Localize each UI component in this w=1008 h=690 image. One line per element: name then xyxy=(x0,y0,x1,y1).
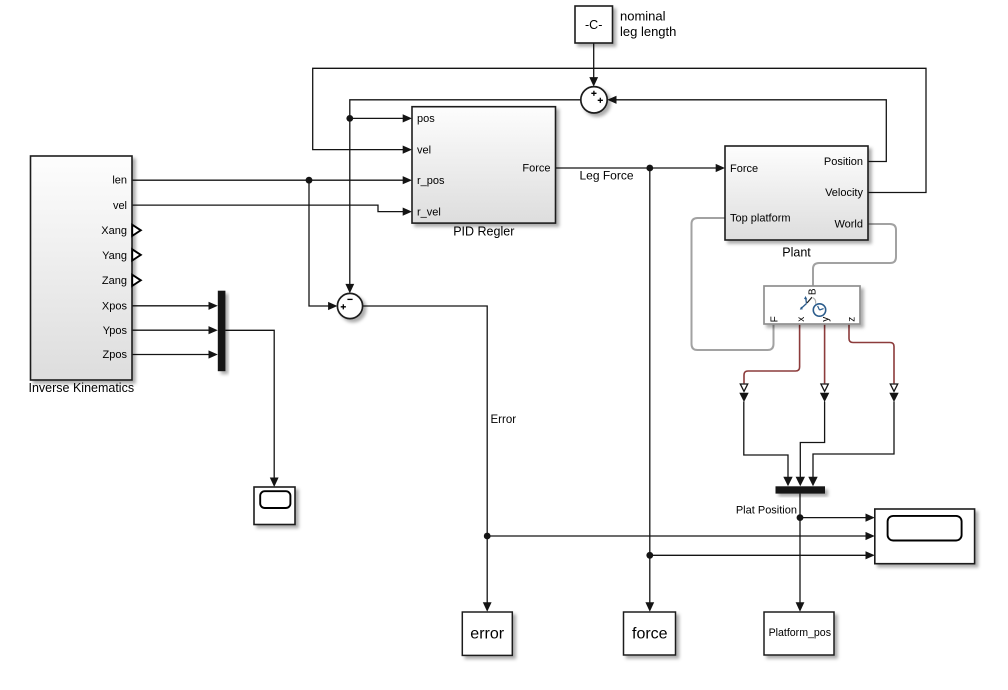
svg-text:x: x xyxy=(796,317,807,322)
svg-text:error: error xyxy=(470,626,504,643)
svg-text:z: z xyxy=(846,317,857,322)
svg-text:-C-: -C- xyxy=(585,18,602,32)
svg-text:Xang: Xang xyxy=(101,225,127,237)
svg-text:force: force xyxy=(632,626,668,643)
svg-text:F: F xyxy=(770,316,781,322)
svg-text:Velocity: Velocity xyxy=(825,187,863,199)
svg-text:Inverse Kinematics: Inverse Kinematics xyxy=(28,381,134,395)
svg-text:Zang: Zang xyxy=(102,275,127,287)
svg-text:Top platform: Top platform xyxy=(730,213,791,225)
svg-text:r_pos: r_pos xyxy=(417,175,445,187)
svg-text:vel: vel xyxy=(113,200,127,212)
svg-text:Force: Force xyxy=(730,163,758,175)
svg-text:Ypos: Ypos xyxy=(103,325,128,337)
svg-text:y: y xyxy=(820,317,831,322)
svg-text:PID Regler: PID Regler xyxy=(453,225,514,239)
svg-text:Leg Force: Leg Force xyxy=(579,169,633,183)
svg-text:Plant: Plant xyxy=(782,246,811,260)
svg-text:Platform_pos: Platform_pos xyxy=(769,627,831,639)
svg-text:vel: vel xyxy=(417,144,431,156)
svg-text:Error: Error xyxy=(491,414,517,426)
svg-text:len: len xyxy=(112,175,127,187)
svg-text:B: B xyxy=(808,288,819,295)
svg-text:pos: pos xyxy=(417,113,435,125)
svg-text:Zpos: Zpos xyxy=(103,349,128,361)
svg-text:leg length: leg length xyxy=(620,24,676,39)
svg-text:Plat Position: Plat Position xyxy=(736,504,797,516)
svg-text:Force: Force xyxy=(522,163,550,175)
svg-text:Xpos: Xpos xyxy=(102,301,128,313)
svg-text:Yang: Yang xyxy=(102,250,127,262)
svg-text:nominal: nominal xyxy=(620,9,666,24)
svg-text:r_vel: r_vel xyxy=(417,206,441,218)
svg-text:World: World xyxy=(834,219,863,231)
svg-text:Position: Position xyxy=(824,156,863,168)
